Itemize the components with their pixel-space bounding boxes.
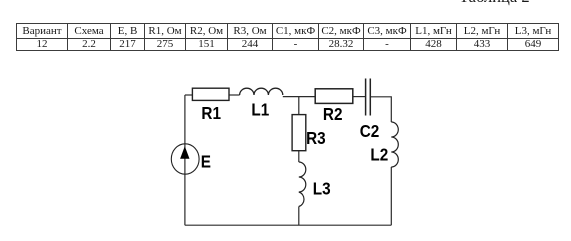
wire R1 to L1 — [229, 94, 240, 96]
wire L1 to R2 (through node) — [283, 96, 315, 98]
wire L3 to bottom — [298, 207, 300, 226]
svg-text:C2: C2 — [360, 121, 380, 141]
svg-text:L2: L2 — [370, 144, 388, 164]
inductor L2 — [391, 122, 398, 167]
wire R2 to C2 — [353, 96, 366, 98]
wire R3 to L3 — [298, 151, 300, 162]
resistor R2 — [315, 89, 353, 104]
wire C2 to right corner, down to L2 — [370, 97, 391, 122]
source E circle — [171, 144, 199, 174]
wire node down to R3 — [298, 97, 300, 115]
svg-text:R1: R1 — [201, 103, 221, 123]
wire top-left to R1 — [185, 94, 193, 96]
wire bottom — [185, 224, 391, 226]
caption "Таблица 2" — [459, 0, 530, 5]
svg-text:R3: R3 — [306, 128, 326, 148]
capacitor C2 — [366, 79, 371, 116]
parameter table — [16, 23, 559, 51]
wire left rail — [184, 95, 186, 225]
resistor R1 — [192, 88, 229, 100]
source E arrow — [180, 146, 189, 159]
inductor L3 — [299, 162, 306, 207]
svg-text:L1: L1 — [251, 99, 269, 119]
svg-text:R2: R2 — [323, 104, 343, 124]
wire L2 to bottom-right corner — [390, 167, 392, 225]
resistor R3 — [292, 115, 306, 151]
svg-text:E: E — [201, 151, 211, 171]
inductor L1 — [240, 88, 283, 95]
svg-text:L3: L3 — [313, 178, 331, 198]
